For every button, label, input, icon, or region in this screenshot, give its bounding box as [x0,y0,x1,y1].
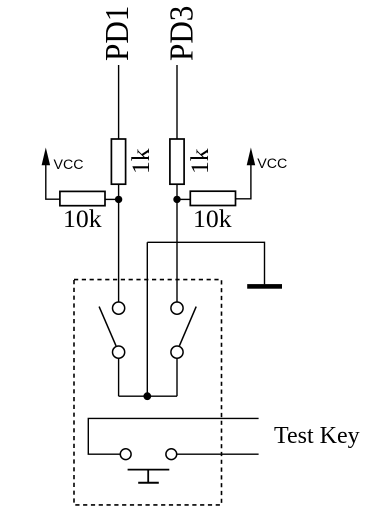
wire test key top lead [88,418,258,454]
node junction dot right [173,196,180,203]
svg-text:1k: 1k [185,148,214,174]
switch S1 bottom terminal [113,346,125,358]
dashed enclosure box [74,280,222,505]
pushbutton right contact [166,449,177,460]
svg-text:VCC: VCC [257,156,287,172]
wire R2 to switch S2 [176,184,178,302]
switch S1 lever [99,307,116,346]
svg-text:PD1: PD1 [98,6,135,61]
pushbutton actuator base [138,482,159,484]
wire node right to R4 [177,198,190,200]
wire common to ground [147,242,264,284]
wire R1 to switch S1 [118,184,120,302]
node junction dot left [115,196,122,203]
wire common vertical (between switches) [146,242,148,396]
ground [247,284,282,289]
wire VCC to R3 [46,160,60,199]
wire test key bottom lead [177,453,259,455]
svg-text:1k: 1k [126,148,155,174]
wire S2 to common [176,358,178,396]
node junction dot bottom [143,392,151,400]
svg-text:VCC: VCC [54,157,84,173]
resistor R2 1k (right) [170,139,184,184]
switch S2 bottom terminal [171,346,183,358]
switch S2 lever [179,307,196,346]
pushbutton actuator bar [128,469,170,471]
wire S1 to common [118,358,120,396]
wire VCC to R4 [236,160,251,199]
svg-text:10k: 10k [193,204,232,233]
wire PD1 to R1 [118,65,120,139]
svg-text:10k: 10k [63,204,102,233]
switch S2 top terminal [171,302,183,314]
switch S1 top terminal [113,302,125,314]
wire R3 to node left [105,198,119,200]
resistor R1 1k (left) [111,139,125,184]
pushbutton left contact [120,449,131,460]
power VCC arrow (right) [247,148,256,166]
pushbutton actuator stem [147,470,149,483]
svg-text:Test Key: Test Key [274,423,360,449]
resistor R3 10k (left) [60,191,105,205]
wire PD3 to R2 [176,65,178,139]
resistor R4 10k (right) [190,191,235,205]
svg-text:PD3: PD3 [162,6,199,61]
power VCC arrow (left) [42,148,51,166]
wire switch commons join [119,395,177,397]
